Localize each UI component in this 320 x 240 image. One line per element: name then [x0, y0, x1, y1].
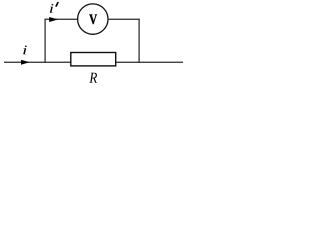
label i (current in main branch): [23, 46, 27, 55]
arrow: current i' direction on voltmeter branch: [49, 17, 58, 22]
wire: left vertical branch: [44, 19, 46, 63]
resistor R: rectangle body: [71, 53, 116, 66]
label R (resistance value): [89, 73, 97, 83]
wire: right vertical branch: [138, 19, 140, 63]
wire: top branch, voltmeter to right corner: [108, 18, 140, 20]
wire: top branch, corner to voltmeter: [45, 18, 79, 20]
arrow: current i direction on bottom wire: [21, 60, 30, 65]
label i' prime tick: [56, 3, 58, 6]
wire: bottom main conductor: [4, 61, 183, 63]
label i' (current in voltmeter branch): letter i: [50, 4, 54, 13]
label V (voltmeter): [89, 15, 97, 25]
voltmeter U1: circle body: [78, 4, 108, 34]
